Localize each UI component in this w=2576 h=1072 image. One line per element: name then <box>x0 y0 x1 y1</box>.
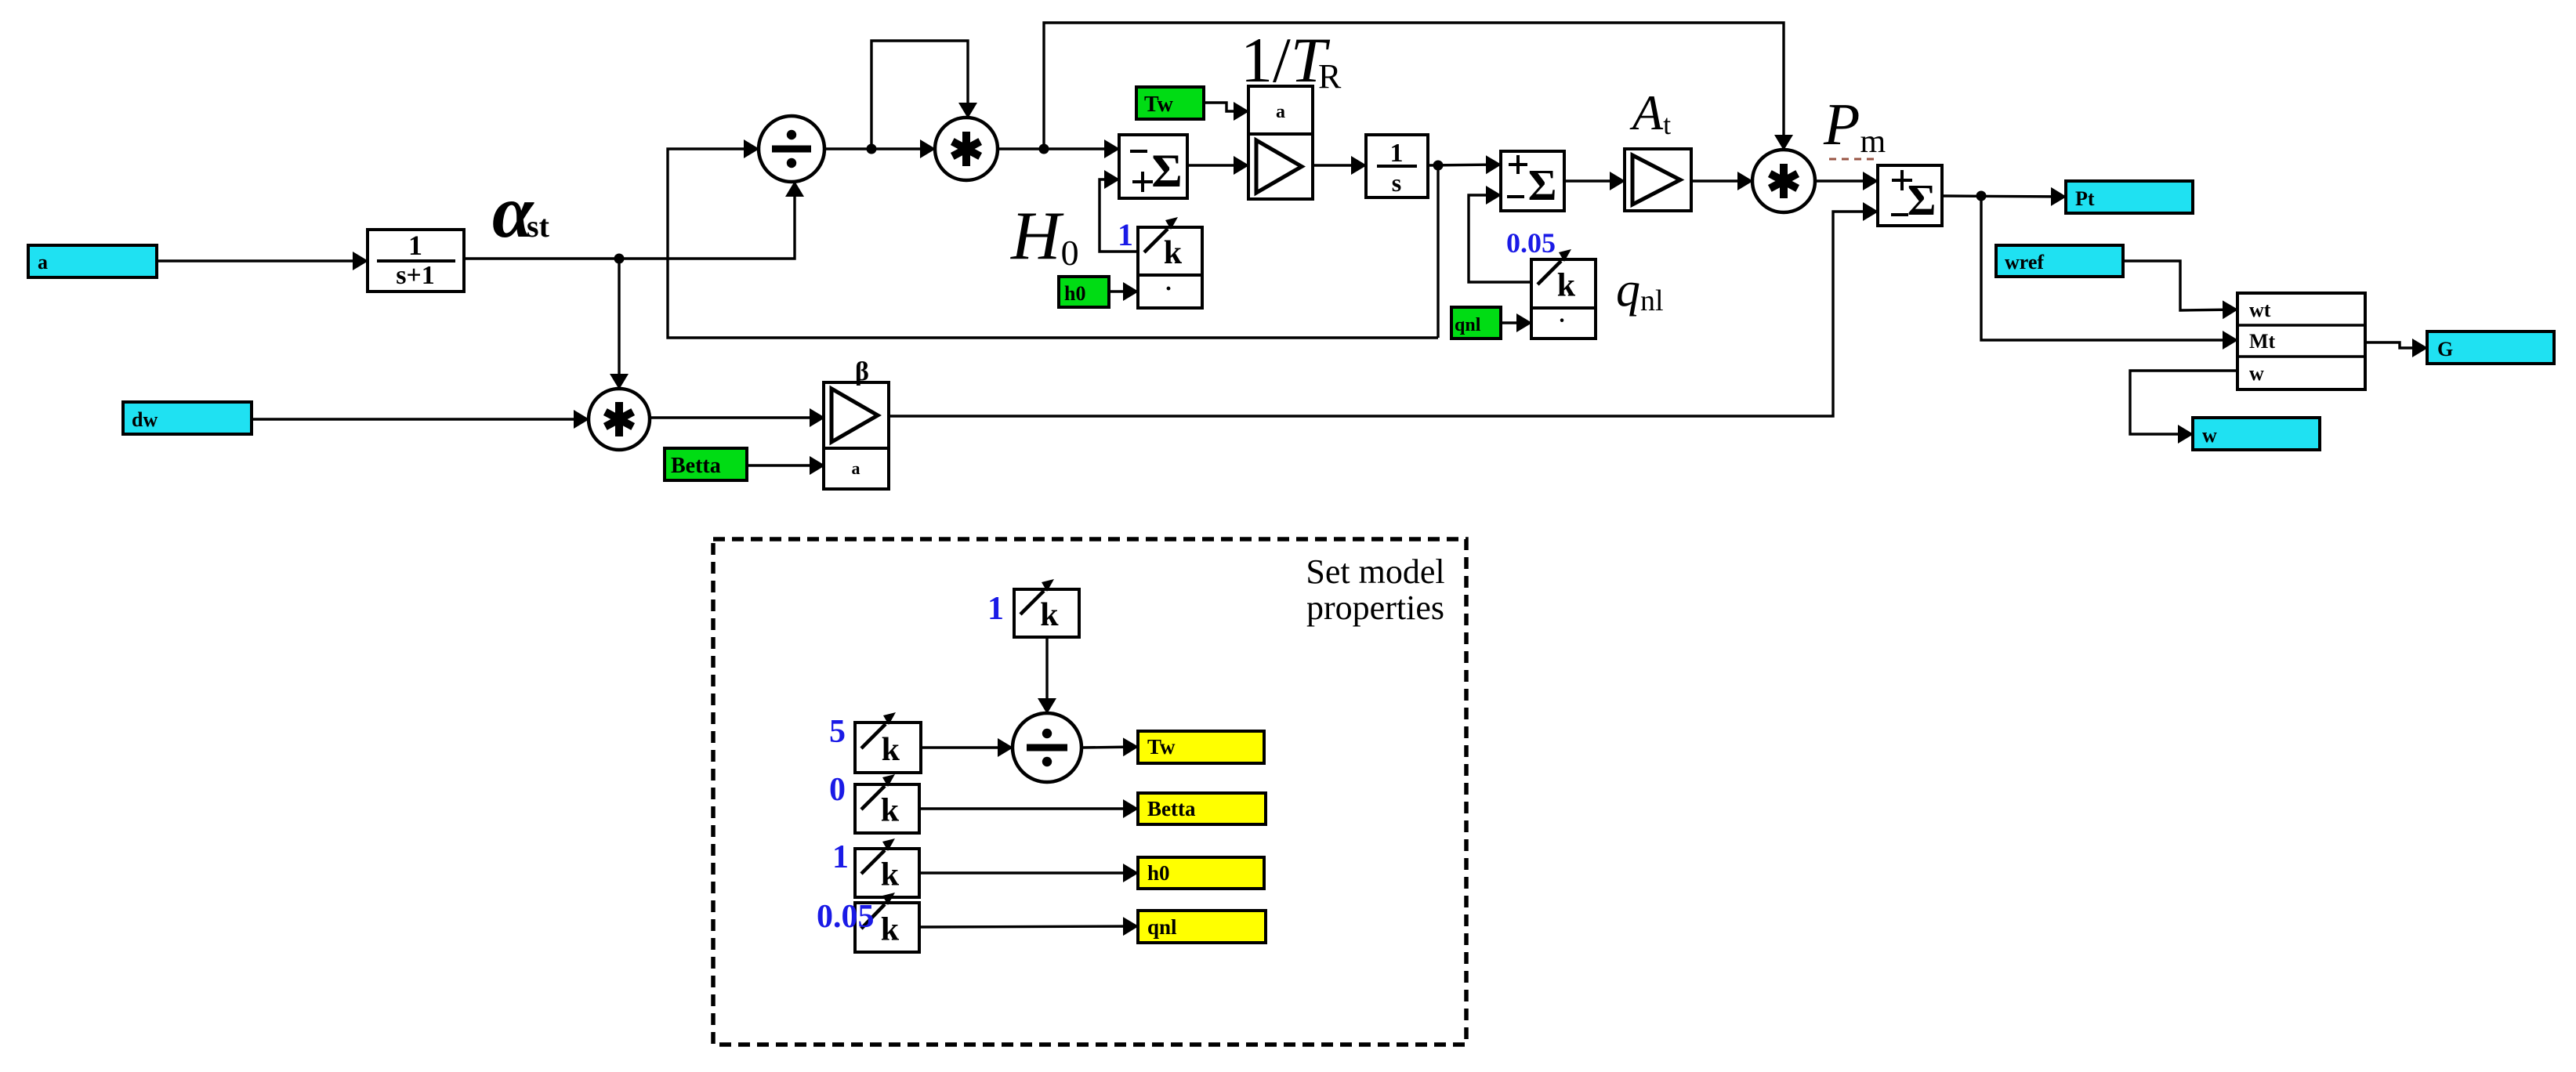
svg-text:k: k <box>1557 268 1576 304</box>
svg-text:a: a <box>852 458 860 478</box>
svg-text:k: k <box>882 732 900 768</box>
svg-text:Betta: Betta <box>1147 797 1196 820</box>
svg-text:Σ: Σ <box>1528 161 1557 210</box>
svg-text:s+1: s+1 <box>396 261 435 290</box>
svg-text:h0: h0 <box>1064 282 1085 305</box>
svg-text:·: · <box>1558 309 1565 333</box>
svg-text:G: G <box>2437 338 2453 360</box>
svg-text:1: 1 <box>832 839 849 875</box>
svg-text:wt: wt <box>2249 299 2271 321</box>
svg-text:properties: properties <box>1306 589 1444 627</box>
svg-text:Σ: Σ <box>1908 176 1937 225</box>
svg-text:wref: wref <box>2005 251 2044 273</box>
svg-text:qnl: qnl <box>1455 315 1481 335</box>
svg-text:·: · <box>1165 276 1172 302</box>
svg-text:R: R <box>1318 57 1342 96</box>
svg-text:5: 5 <box>829 714 846 750</box>
svg-text:dw: dw <box>132 408 158 431</box>
svg-text:k: k <box>881 857 900 893</box>
svg-text:Mt: Mt <box>2249 330 2276 353</box>
svg-text:k: k <box>1164 235 1183 271</box>
svg-text:w: w <box>2202 424 2217 447</box>
svg-text:1: 1 <box>987 591 1004 627</box>
svg-text:Tw: Tw <box>1147 735 1176 759</box>
svg-text:k: k <box>1040 597 1059 633</box>
svg-text:w: w <box>2249 362 2264 385</box>
svg-text:h0: h0 <box>1147 861 1170 885</box>
svg-text:Σ: Σ <box>1151 145 1182 197</box>
svg-text:qnl: qnl <box>1147 915 1177 939</box>
svg-text:Set model: Set model <box>1306 552 1444 591</box>
svg-text:0.05: 0.05 <box>817 899 875 935</box>
svg-text:0: 0 <box>829 772 846 808</box>
svg-text:st: st <box>527 208 550 244</box>
svg-text:a: a <box>38 251 48 273</box>
svg-text:s: s <box>1392 168 1401 197</box>
svg-text:Pt: Pt <box>2075 187 2095 210</box>
svg-text:k: k <box>881 911 900 947</box>
svg-text:Betta: Betta <box>671 454 721 478</box>
svg-text:1/T: 1/T <box>1241 24 1331 96</box>
svg-text:1: 1 <box>1118 217 1133 252</box>
svg-text:a: a <box>1276 102 1285 122</box>
svg-text:1: 1 <box>1390 139 1404 168</box>
svg-text:k: k <box>881 793 900 829</box>
svg-text:Tw: Tw <box>1144 92 1174 117</box>
svg-text:0.05: 0.05 <box>1506 227 1556 259</box>
svg-text:β: β <box>855 357 869 386</box>
svg-text:1: 1 <box>408 230 422 261</box>
